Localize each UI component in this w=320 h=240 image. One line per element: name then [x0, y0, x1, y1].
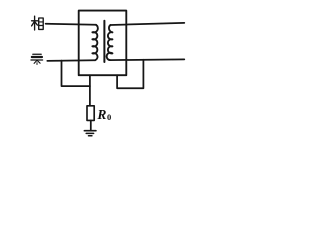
- svg-text:0: 0: [107, 112, 111, 122]
- svg-text:R: R: [96, 107, 106, 122]
- wire: neutral branch down to ground conductor: [62, 61, 90, 87]
- wire: neutral line from 零 to primary bottom: [47, 59, 95, 62]
- transformer primary winding (left): [92, 25, 97, 60]
- wire: phase line from 相 to primary top: [46, 24, 96, 25]
- wire: resistor to ground: [90, 120, 92, 130]
- node 零 (neutral) label: [31, 54, 43, 64]
- wire: shield box bottom to resistor: [89, 75, 91, 106]
- wire: secondary bottom output line: [110, 58, 184, 61]
- ground symbol: [84, 130, 96, 132]
- node 相 (phase) label: [32, 16, 44, 30]
- wire: secondary top output line: [110, 23, 184, 25]
- cusp ink dots primary: [92, 31, 94, 54]
- transformer secondary winding (right): [107, 25, 113, 60]
- shield box around transformer: [79, 11, 127, 76]
- cusp ink dots secondary: [111, 31, 113, 54]
- transformer core: [103, 21, 105, 62]
- wire: secondary bottom tap down to shield: [117, 60, 143, 89]
- resistor R0 body: [87, 106, 94, 121]
